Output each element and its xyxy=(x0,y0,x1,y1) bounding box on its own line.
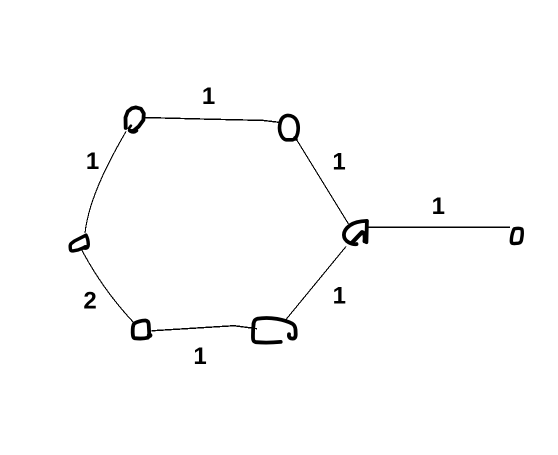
node A (top-left vertex) xyxy=(126,107,144,131)
svg-text:1: 1 xyxy=(86,148,99,175)
wire edge B-D (upper-right) xyxy=(297,140,349,225)
svg-text:1: 1 xyxy=(202,83,215,110)
node E (bottom-left vertex) xyxy=(133,320,153,338)
wire edge C-E (lower-left) xyxy=(82,250,134,323)
node G (far-right vertex) xyxy=(511,228,522,243)
wire edge A-B (top) xyxy=(144,118,281,123)
node B (top-right vertex) xyxy=(280,115,299,139)
svg-text:1: 1 xyxy=(332,149,345,176)
node F (bottom-middle vertex) xyxy=(253,318,296,343)
node D (right hub vertex) xyxy=(344,221,367,244)
wire edge E-F (bottom) xyxy=(152,326,258,331)
svg-text:2: 2 xyxy=(83,288,96,315)
wire edge D-G (right) xyxy=(368,226,510,228)
svg-text:1: 1 xyxy=(193,343,206,370)
node C (left vertex) xyxy=(70,235,88,251)
wire edge F-D (lower-right) xyxy=(286,247,346,320)
wire edge A-C (upper-left) xyxy=(85,132,126,234)
svg-text:1: 1 xyxy=(333,283,346,310)
svg-text:1: 1 xyxy=(432,193,445,220)
